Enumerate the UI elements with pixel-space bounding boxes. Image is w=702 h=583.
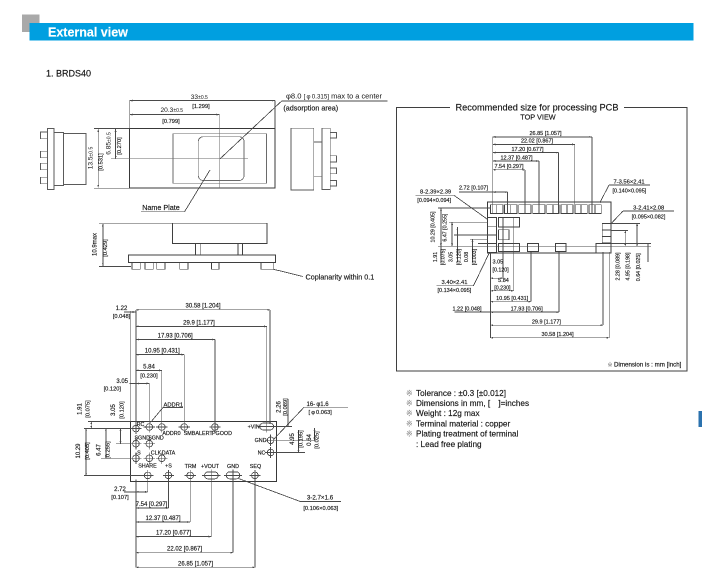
right side view: step <box>314 142 322 176</box>
svg-text:33±0.5: 33±0.5 <box>191 94 208 101</box>
svg-text:NC: NC <box>258 450 266 456</box>
svg-text:SEQ: SEQ <box>250 464 261 470</box>
svg-text:Recommended size for processin: Recommended size for processing PCB <box>456 102 619 112</box>
pin SHARE <box>144 472 151 479</box>
pin RC <box>133 425 140 432</box>
footprint pad CLK square <box>499 230 510 240</box>
svg-text:GND: GND <box>255 438 267 444</box>
dimension 10.29 [0.405] vertical <box>85 429 87 476</box>
pin +S <box>165 472 172 479</box>
pin SMBALERT <box>181 424 188 431</box>
svg-text:13.5±0.5: 13.5±0.5 <box>88 147 95 170</box>
svg-text:17.93 [0.706]: 17.93 [0.706] <box>158 334 193 340</box>
svg-text:7.54 [0.297]: 7.54 [0.297] <box>494 164 524 170</box>
right extension lines bottom view <box>276 426 293 428</box>
svg-text:[0.094×0.094]: [0.094×0.094] <box>417 198 451 204</box>
svg-text:3.05: 3.05 <box>116 379 128 385</box>
svg-text:-S: -S <box>135 450 141 456</box>
top view: inner outline <box>173 134 267 184</box>
svg-text:5.84: 5.84 <box>143 365 155 371</box>
svg-text:1.22 [0.048]: 1.22 [0.048] <box>452 306 482 312</box>
svg-text:SHARE: SHARE <box>138 463 157 469</box>
svg-text:Name Plate: Name Plate <box>142 203 180 212</box>
svg-text:26.85 [1.057]: 26.85 [1.057] <box>178 561 213 567</box>
svg-text:2.28 [0.089]: 2.28 [0.089] <box>616 252 622 281</box>
page header gray square <box>22 15 40 33</box>
svg-text:10.95 [0.431]: 10.95 [0.431] <box>145 349 180 355</box>
dimension 12.37 [0.487] <box>136 521 190 523</box>
svg-text:10.9max: 10.9max <box>93 233 99 256</box>
svg-text:RC: RC <box>137 422 145 428</box>
panel dimension 4.95 [0.198] vertical <box>636 223 638 246</box>
left side view: step <box>54 133 64 186</box>
footprint pad SGND wide <box>499 218 520 227</box>
svg-text:SMBALERT: SMBALERT <box>184 431 214 437</box>
svg-text:[0.075]: [0.075] <box>86 400 92 418</box>
blue edge tab <box>699 411 702 427</box>
svg-text:Plating treatment of terminal: Plating treatment of terminal <box>416 430 519 439</box>
pin SGND b <box>146 440 153 447</box>
svg-text:CLK: CLK <box>151 450 162 456</box>
panel dimension 10.29 [0.405] vertical <box>440 208 442 246</box>
svg-text:22.02 [0.867]: 22.02 [0.867] <box>167 547 202 553</box>
svg-text:[0.075]: [0.075] <box>441 248 447 265</box>
dimension 2.26 [0.089] vertical <box>287 399 289 427</box>
right side view: base plate <box>322 128 330 189</box>
dimension 3.05 [0.120] vertical <box>120 429 122 444</box>
svg-text:φ8.0 [ φ 0.315] max to a cent: φ8.0 [ φ 0.315] max to a center <box>286 92 383 101</box>
footprint top pads (7-3.56×2.41) <box>491 205 503 214</box>
panel dimension 0.64 [0.025] vertical <box>647 244 649 262</box>
svg-text:0.08: 0.08 <box>464 252 470 262</box>
svg-text:[0.048]: [0.048] <box>113 314 131 320</box>
svg-text:GND: GND <box>227 464 239 470</box>
svg-text:22.02 [0.867]: 22.02 [0.867] <box>521 139 554 145</box>
dimension 3.05 [0.120] <box>130 383 136 385</box>
pin PGOOD <box>212 424 219 431</box>
svg-text:12.37 [0.487]: 12.37 [0.487] <box>500 155 533 161</box>
panel dimension 17.20 [0.677] <box>493 152 559 154</box>
left side view: body <box>64 134 87 185</box>
svg-text:: Lead free plating: : Lead free plating <box>416 440 482 449</box>
svg-text:2.26: 2.26 <box>277 401 283 413</box>
svg-text:[0.140×0.095]: [0.140×0.095] <box>613 189 647 195</box>
svg-text:+VOUT: +VOUT <box>201 464 220 470</box>
panel left extension lines <box>438 207 491 209</box>
svg-text:[ φ 0.063]: [ φ 0.063] <box>309 410 333 416</box>
dimension 29.9 [1.177] <box>136 325 267 327</box>
svg-text:3.05: 3.05 <box>111 404 117 416</box>
pin CLK <box>146 455 153 462</box>
panel dimension 3.05 [0.120] vertical (left) <box>456 227 458 262</box>
dimension 17.93 [0.706] <box>136 339 215 341</box>
dimension 6.85±0.5 [0.270] <box>115 129 117 158</box>
panel dimension 2.28 [0.089] vertical <box>624 231 626 247</box>
elevation: stand-off posts <box>196 244 201 256</box>
dimension 30.58 [1.204] <box>136 309 270 311</box>
svg-text:+VIN: +VIN <box>248 424 260 430</box>
svg-text:[0.531]: [0.531] <box>99 153 105 171</box>
pin TRM <box>187 472 194 479</box>
pin ADDR1 <box>146 424 153 431</box>
svg-text:30.58 [1.204]: 30.58 [1.204] <box>542 332 575 338</box>
page header cyan bar <box>30 23 694 41</box>
svg-text:※: ※ <box>406 409 413 418</box>
panel right extension lines <box>611 222 640 224</box>
left side view: 4 terminals <box>41 132 48 139</box>
svg-text:30.58 [1.204]: 30.58 [1.204] <box>185 304 220 310</box>
svg-text:20.3±0.5: 20.3±0.5 <box>161 107 184 114</box>
pin +VOUT (slot) <box>205 472 219 479</box>
right side view: 4 terminals <box>330 132 336 138</box>
svg-text:[0.120]: [0.120] <box>493 268 510 274</box>
svg-text:[0.405]: [0.405] <box>85 442 91 460</box>
pin SGND a <box>133 440 140 447</box>
svg-text:1.22: 1.22 <box>116 306 128 312</box>
dimension 33±0.5 [1.299] <box>129 101 131 129</box>
svg-text:[1.299]: [1.299] <box>192 104 210 110</box>
svg-text:※: ※ <box>406 389 413 398</box>
svg-text:29.9 [1.177]: 29.9 [1.177] <box>532 319 562 325</box>
svg-text:[0.025]: [0.025] <box>314 431 320 449</box>
svg-text:[0.106×0.063]: [0.106×0.063] <box>303 506 338 512</box>
svg-text:0.64: 0.64 <box>307 434 313 446</box>
svg-text:29.9 [1.177]: 29.9 [1.177] <box>183 320 215 326</box>
svg-text:Tolerance : ±0.3 [±0.012]: Tolerance : ±0.3 [±0.012] <box>416 389 506 398</box>
svg-text:3.05: 3.05 <box>449 252 455 262</box>
footprint bottom pads <box>499 244 520 252</box>
dimension 7.54 [0.297] <box>136 507 169 509</box>
svg-text:+S: +S <box>165 463 172 469</box>
svg-text:3-2.7×1.6: 3-2.7×1.6 <box>307 495 334 502</box>
svg-text:2.72 [0.107]: 2.72 [0.107] <box>459 186 489 192</box>
svg-text:6.47 [0.255]: 6.47 [0.255] <box>442 213 448 242</box>
svg-text:4.95 [0.198]: 4.95 [0.198] <box>626 252 632 281</box>
PCB panel border <box>397 108 688 371</box>
pin SEQ <box>252 472 259 479</box>
svg-text:[0.120]: [0.120] <box>456 248 462 265</box>
dimension 17.20 [0.677] <box>136 536 211 538</box>
dimension 13.5±0.5 [0.531] <box>94 128 131 130</box>
svg-text:7.54 [0.297]: 7.54 [0.297] <box>136 502 168 508</box>
svg-text:※: ※ <box>406 430 413 439</box>
dimension 1.91 [0.075] vertical <box>90 422 92 429</box>
svg-text:12.37 [0.487]: 12.37 [0.487] <box>145 516 180 522</box>
svg-text:Terminal material : copper: Terminal material : copper <box>416 419 510 428</box>
center cross line vertical <box>218 115 220 188</box>
svg-text:Weight : 12g max: Weight : 12g max <box>416 409 480 418</box>
svg-text:1. BRDS40: 1. BRDS40 <box>46 69 91 79</box>
footprint left pad ladder (2.39×2.39) <box>488 218 497 253</box>
svg-text:[0.095×0.082]: [0.095×0.082] <box>632 214 666 220</box>
svg-text:8-2.39×2.39: 8-2.39×2.39 <box>420 190 451 196</box>
name plate outline <box>198 137 244 181</box>
svg-text:Dimension is : mm [inch]: Dimension is : mm [inch] <box>614 362 682 369</box>
extension lines, bottom view bottom dims <box>135 480 137 568</box>
panel dimension 0.08 [0.003] vertical <box>472 239 474 262</box>
left side view: base plate <box>48 129 55 190</box>
svg-text:(adsorption area): (adsorption area) <box>283 103 338 112</box>
extension lines, bottom view top dims <box>135 310 137 424</box>
svg-text:[0.255]: [0.255] <box>106 441 112 459</box>
svg-text:※: ※ <box>608 362 613 369</box>
svg-text:[0.120]: [0.120] <box>104 387 122 393</box>
pin ADDR0 <box>159 424 166 431</box>
svg-text:PGOOD: PGOOD <box>212 431 232 437</box>
svg-text:SGND: SGND <box>148 436 164 442</box>
dimension 20.3±0.5 [0.799] <box>130 114 220 116</box>
footprint right pad ladder (3-2.41×2.08) <box>602 223 611 243</box>
svg-text:0.64 [0.025]: 0.64 [0.025] <box>636 253 642 282</box>
svg-text:Dimensions in mm, [ ]=inches: Dimensions in mm, [ ]=inches <box>416 399 529 408</box>
pin GND right <box>267 437 274 444</box>
panel dimension 7.54 [0.297] <box>493 169 525 171</box>
svg-text:4.95: 4.95 <box>290 433 296 445</box>
dimension 5.84 [0.230] <box>136 369 162 371</box>
svg-text:[0.799]: [0.799] <box>162 119 180 125</box>
svg-text:10.29 [0.405]: 10.29 [0.405] <box>431 211 437 242</box>
dimension 4.95 [0.195] vertical <box>298 430 300 453</box>
svg-text:Coplanarity within 0.1: Coplanarity within 0.1 <box>306 272 375 281</box>
dimension 26.85 [1.057] <box>136 566 255 568</box>
dimension 6.47 [0.255] vertical <box>105 429 107 459</box>
svg-text:6.47: 6.47 <box>97 444 103 456</box>
top view: module outline <box>130 129 275 189</box>
svg-text:10.29: 10.29 <box>76 443 82 459</box>
svg-text:[0.120]: [0.120] <box>120 401 126 419</box>
dimension 10.9max [0.429] <box>99 222 172 224</box>
svg-text:TOP VIEW: TOP VIEW <box>520 112 556 121</box>
footprint outline <box>488 202 612 253</box>
panel dimension 1.91 [0.075] vertical <box>440 246 442 262</box>
svg-text:[0.429]: [0.429] <box>103 239 109 257</box>
panel dimension 26.85 [1.057] <box>493 136 592 138</box>
svg-text:External view: External view <box>48 26 128 40</box>
svg-text:5.84: 5.84 <box>498 278 509 284</box>
panel bottom extension lines <box>490 252 492 338</box>
elevation: terminals <box>132 263 140 270</box>
left extension lines bottom view <box>88 421 130 423</box>
svg-text:DATA: DATA <box>162 450 176 456</box>
svg-text:[0.003]: [0.003] <box>472 248 478 265</box>
pin GND bottom (slot) <box>226 472 240 479</box>
svg-text:17.20 [0.677]: 17.20 [0.677] <box>511 147 544 153</box>
svg-text:[0.270]: [0.270] <box>117 137 123 155</box>
label Coplanarity within 0.1 <box>273 269 303 276</box>
dimension 22.02 [0.867] <box>136 552 233 554</box>
pin DATA <box>159 455 166 462</box>
elevation: base plate <box>129 255 276 263</box>
panel top extension lines <box>492 137 494 214</box>
svg-text:1.91: 1.91 <box>433 252 439 262</box>
svg-text:[0.195]: [0.195] <box>298 430 304 448</box>
svg-text:TRM: TRM <box>185 464 197 470</box>
panel dimension 12.37 [0.487] <box>493 160 539 162</box>
panel dimension 6.47 [0.255] vertical <box>451 222 453 246</box>
pin +VIN (slot) <box>260 423 274 430</box>
svg-text:[0.230]: [0.230] <box>140 374 158 380</box>
svg-text:[0.134×0.095]: [0.134×0.095] <box>438 288 472 294</box>
right side view: body <box>291 128 314 190</box>
svg-text:17.20 [0.677]: 17.20 [0.677] <box>156 531 191 537</box>
svg-text:7-3.56×2.41: 7-3.56×2.41 <box>613 179 644 185</box>
svg-text:ADDR0: ADDR0 <box>162 431 180 437</box>
pin NC <box>267 449 274 456</box>
svg-text:1.91: 1.91 <box>78 403 84 415</box>
dimension 10.95 [0.431] <box>136 354 184 356</box>
elevation: body <box>172 223 267 243</box>
dimension 0.64 [0.025] vertical <box>314 428 316 440</box>
center cross line horizontal <box>111 158 248 160</box>
svg-text:※: ※ <box>406 399 413 408</box>
svg-text:6.85±0.5: 6.85±0.5 <box>106 132 113 155</box>
svg-text:※: ※ <box>406 419 413 428</box>
panel long extension line y246.3 <box>438 245 651 247</box>
panel dimension 22.02 [0.867] <box>493 143 575 145</box>
svg-text:26.85 [1.057]: 26.85 [1.057] <box>529 131 562 137</box>
svg-text:[0.107]: [0.107] <box>111 495 129 501</box>
bottom view: module outline <box>130 422 276 482</box>
svg-text:[0.089]: [0.089] <box>283 398 289 416</box>
svg-text:3.05: 3.05 <box>493 260 504 266</box>
pin -S <box>133 455 140 462</box>
